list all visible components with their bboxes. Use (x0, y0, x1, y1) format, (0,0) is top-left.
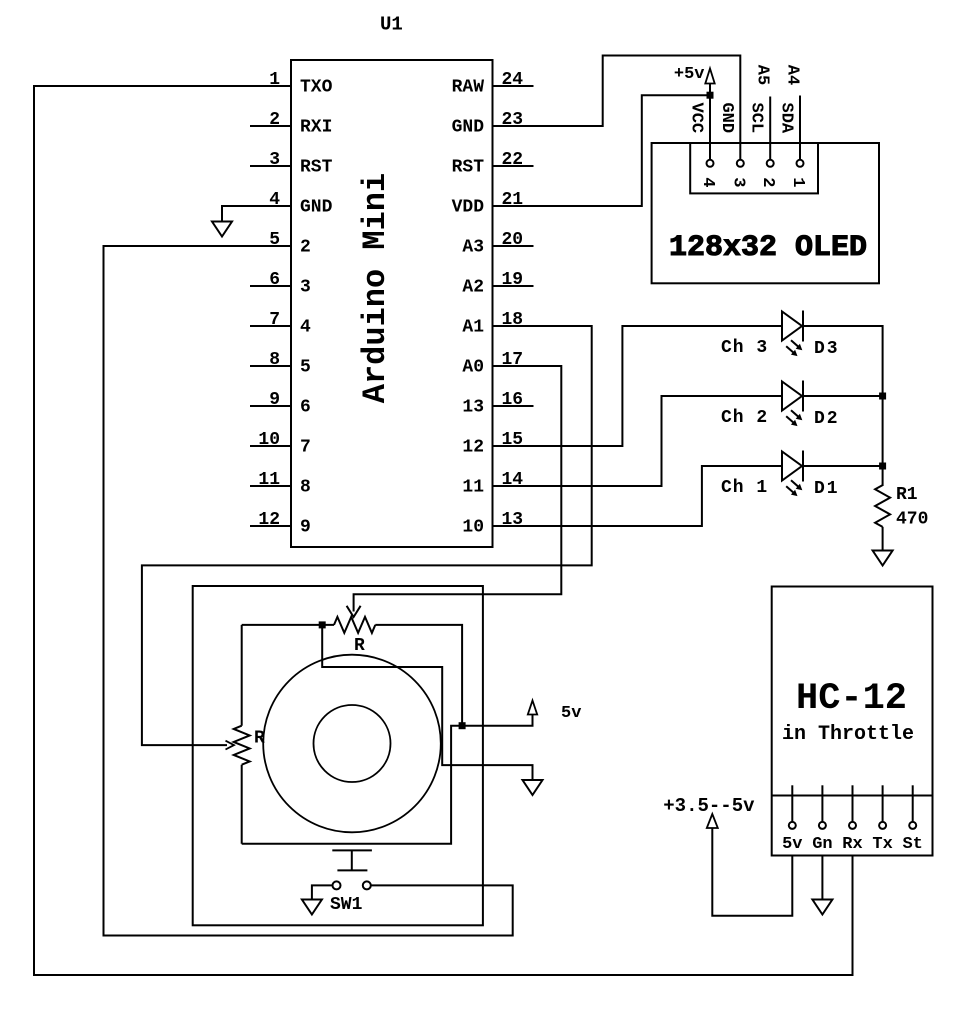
wire pin1 TXO to HC-12 Rx (34, 86, 853, 975)
pin 14 (11) right stub, number and label (462, 470, 523, 498)
label D2 (814, 409, 840, 429)
LED D2 (782, 381, 803, 427)
label Ch 1 (721, 478, 768, 498)
svg-text:10: 10 (462, 518, 484, 538)
pin 12 (9) left stub, number and label (250, 510, 311, 538)
svg-text:8: 8 (269, 350, 280, 370)
LED D3 (782, 311, 803, 357)
OLED pin 2 circle (767, 160, 774, 167)
HC-12 pin St tick and circle (909, 785, 916, 829)
OLED pin header block (690, 143, 818, 193)
HC-12 pin label St (902, 835, 922, 854)
HC-12 pin label Gn (812, 835, 832, 854)
wiper arrowhead into left pot (226, 741, 235, 750)
label 128x32 OLED (669, 231, 867, 265)
label R (top pot) (354, 636, 365, 656)
svg-text:7: 7 (300, 438, 311, 458)
svg-text:3: 3 (728, 177, 747, 187)
+5v label (674, 65, 705, 84)
wire ground rail of pots (322, 625, 532, 780)
joystick inner knob circle (314, 705, 391, 782)
pin 9 (6) left stub, number and label (250, 390, 311, 418)
svg-text:11: 11 (258, 470, 280, 490)
svg-text:2: 2 (269, 110, 280, 130)
svg-text:VCC: VCC (687, 102, 706, 133)
svg-text:Ch 2: Ch 2 (721, 408, 768, 428)
junction node +5v/VDD (707, 92, 714, 99)
svg-text:SDA: SDA (777, 102, 796, 133)
svg-text:6: 6 (300, 398, 311, 418)
pin 11 (8) left stub, number and label (250, 470, 311, 498)
svg-text:2: 2 (300, 238, 311, 258)
svg-text:12: 12 (258, 510, 280, 530)
label D3 (814, 339, 840, 359)
joystick outer ring (263, 655, 441, 833)
label +3.5--5v (663, 795, 755, 817)
svg-text:GND: GND (452, 118, 485, 138)
junction node top pot / ground rail (319, 621, 326, 628)
pin 3 (RST) left stub, number and label (250, 150, 333, 178)
svg-text:6: 6 (269, 270, 280, 290)
joystick module outer box (193, 586, 483, 925)
label 470 (896, 510, 928, 530)
svg-text:A1: A1 (462, 318, 484, 338)
label in Throttle (782, 723, 914, 746)
svg-text:A4: A4 (783, 65, 802, 85)
svg-text:Ch 3: Ch 3 (721, 338, 768, 358)
OLED pin number 1 (rotated) (788, 177, 807, 187)
svg-text:+3.5--5v: +3.5--5v (663, 795, 755, 817)
+5v power arrow symbol (705, 69, 714, 84)
5v power arrow at joystick (528, 701, 537, 715)
U1 reference designator label (380, 14, 403, 36)
svg-text:RST: RST (452, 158, 485, 178)
svg-text:19: 19 (502, 270, 524, 290)
OLED pin number 2 (rotated) (758, 177, 777, 187)
ground symbol at SW1 (302, 900, 322, 915)
label HC-12 (796, 678, 907, 720)
svg-text:VDD: VDD (452, 198, 485, 218)
pin 10 (7) left stub, number and label (250, 430, 311, 458)
junction node D1/bus (879, 463, 886, 470)
svg-text:20: 20 (502, 230, 524, 250)
OLED pin 1 circle (797, 160, 804, 167)
wire pin15 (12) to LED D3 (493, 326, 783, 446)
wire +5v to OLED VCC pin4 (709, 84, 711, 160)
label Ch 3 (721, 338, 768, 358)
svg-text:D3: D3 (814, 339, 840, 359)
pin 22 (RST) right stub, number and label (452, 150, 534, 178)
ground symbol at joystick (523, 780, 543, 795)
wire pin14 (11) to LED D2 (493, 396, 783, 486)
label 5v (561, 704, 581, 723)
pin 1 (TXO) left stub, number and label (269, 70, 332, 98)
wire HC-12 Gn to ground (821, 856, 823, 900)
OLED pin number 4 (rotated) (698, 177, 717, 187)
label SW1 (330, 895, 363, 915)
pin 21 (VDD) right stub, number and label (452, 190, 524, 218)
resistor R1 (875, 485, 890, 527)
wire 5v rail of pots (242, 715, 533, 844)
svg-text:Tx: Tx (872, 835, 892, 854)
OLED pin 3 circle (737, 160, 744, 167)
pin 8 (5) left stub, number and label (250, 350, 311, 378)
OLED pin label GND (rotated) (717, 102, 736, 133)
svg-text:RST: RST (300, 158, 333, 178)
wire pin5 (2) to SW1 (104, 246, 513, 936)
svg-text:5v: 5v (782, 835, 802, 854)
wire pin23 GND to OLED pin3 (493, 56, 741, 160)
potentiometer R (horizontal, X axis) (242, 617, 462, 726)
svg-text:10: 10 (258, 430, 280, 450)
svg-text:A3: A3 (462, 238, 484, 258)
net label A5 (rotated) (753, 65, 772, 85)
svg-text:Ch 1: Ch 1 (721, 478, 768, 498)
wire pin18 A1 to joystick pot wiper (142, 326, 592, 745)
wire pin13 (10) to LED D1 (493, 466, 783, 526)
wire +3.5--5v supply to HC-12 5v pin (712, 828, 792, 916)
wire D1 cathode to bus (803, 465, 883, 467)
OLED pin label SDA (rotated) (777, 102, 796, 133)
wire SW1 left contact to ground (312, 885, 333, 899)
pin 5 (2) left stub, number and label (269, 230, 311, 258)
wire A5 to OLED SCL pin2 (769, 97, 771, 160)
pin 17 (A0) right stub, number and label (462, 350, 523, 378)
label R (left pot) (254, 729, 265, 749)
svg-text:128x32 OLED: 128x32 OLED (669, 231, 867, 265)
pin 16 (13) right stub, number and label (462, 390, 533, 418)
svg-text:22: 22 (502, 150, 524, 170)
+3.5--5v power arrow (707, 814, 718, 828)
label R1 (896, 485, 918, 505)
HC-12 pin Gn tick and circle (819, 785, 826, 829)
svg-text:A2: A2 (462, 278, 484, 298)
svg-text:GND: GND (300, 198, 333, 218)
svg-text:A0: A0 (462, 358, 484, 378)
svg-text:8: 8 (300, 478, 311, 498)
svg-text:5: 5 (300, 358, 311, 378)
pin 24 (RAW) right stub, number and label (452, 70, 534, 98)
pin 6 (3) left stub, number and label (250, 270, 311, 298)
svg-text:R: R (354, 636, 365, 656)
wire D2 cathode to bus (803, 395, 883, 397)
svg-text:RXI: RXI (300, 118, 332, 138)
HC-12 pin 5v tick and circle (789, 785, 796, 829)
HC-12 pin label Rx (842, 835, 862, 854)
svg-text:SW1: SW1 (330, 895, 363, 915)
pin 4 (GND) left stub, number and label (269, 190, 332, 218)
svg-text:Gn: Gn (812, 835, 832, 854)
svg-text:4: 4 (300, 318, 311, 338)
wire pin4 GND stub (222, 206, 291, 222)
svg-text:U1: U1 (380, 14, 403, 36)
svg-text:A5: A5 (753, 65, 772, 85)
svg-text:GND: GND (717, 102, 736, 133)
OLED pin 4 circle (707, 160, 714, 167)
svg-text:12: 12 (462, 438, 484, 458)
svg-text:24: 24 (502, 70, 524, 90)
wire pin21 VDD to +5v node (493, 95, 711, 206)
svg-text:RAW: RAW (452, 78, 485, 98)
svg-text:D2: D2 (814, 409, 840, 429)
wire pin17 A0 to joystick pot wiper (354, 366, 562, 612)
wire D3 cathode to R1 (803, 326, 883, 486)
label Ch 2 (721, 408, 768, 428)
svg-text:St: St (902, 835, 922, 854)
potentiometer R (vertical, Y axis) (234, 625, 250, 844)
OLED pin number 3 (rotated) (728, 177, 747, 187)
pin 2 (RXI) left stub, number and label (250, 110, 332, 138)
svg-text:9: 9 (300, 518, 311, 538)
svg-text:7: 7 (269, 310, 280, 330)
HC-12 pin Rx tick and circle (849, 785, 856, 829)
svg-text:470: 470 (896, 510, 928, 530)
svg-text:Arduino Mini: Arduino Mini (357, 173, 394, 403)
ground symbol at pin 4 (212, 222, 232, 237)
Arduino Mini part name (rotated) (357, 173, 394, 403)
svg-text:1: 1 (788, 177, 807, 187)
ground symbol below R1 (873, 551, 893, 566)
svg-text:3: 3 (300, 278, 311, 298)
svg-text:D1: D1 (814, 479, 840, 499)
OLED pin label SCL (rotated) (747, 102, 766, 133)
svg-text:16: 16 (502, 390, 524, 410)
pin 13 (10) right stub, number and label (462, 510, 523, 538)
svg-text:3: 3 (269, 150, 280, 170)
pin 18 (A1) right stub, number and label (462, 310, 523, 338)
junction node D2/bus (879, 393, 886, 400)
svg-text:R1: R1 (896, 485, 918, 505)
128x32 OLED module body (652, 143, 879, 283)
pin 7 (4) left stub, number and label (250, 310, 311, 338)
net label A4 (rotated) (783, 65, 802, 85)
svg-text:Rx: Rx (842, 835, 862, 854)
HC-12 pin label Tx (872, 835, 892, 854)
wire R1 to ground (882, 527, 884, 551)
pin 23 (GND) right stub, number and label (452, 110, 524, 138)
svg-text:HC-12: HC-12 (796, 678, 907, 720)
svg-text:2: 2 (758, 177, 777, 187)
pin 20 (A3) right stub, number and label (462, 230, 533, 258)
switch SW1 pushbutton actuator (332, 850, 372, 870)
svg-text:R: R (254, 729, 265, 749)
svg-text:13: 13 (462, 398, 484, 418)
junction node 5v rail (459, 722, 466, 729)
svg-text:TXO: TXO (300, 78, 333, 98)
label D1 (814, 479, 840, 499)
svg-text:5v: 5v (561, 704, 581, 723)
HC-12 pin label 5v (782, 835, 802, 854)
IC U1 Arduino Mini body (291, 60, 493, 547)
svg-text:4: 4 (698, 177, 717, 187)
ground symbol at HC-12 (812, 900, 832, 915)
pin 19 (A2) right stub, number and label (462, 270, 533, 298)
svg-text:+5v: +5v (674, 65, 705, 84)
LED D1 (782, 451, 803, 497)
wiper arrowhead into top pot (347, 606, 361, 617)
wire A4 to OLED SDA pin1 (799, 96, 801, 160)
svg-text:9: 9 (269, 390, 280, 410)
switch SW1 contacts (333, 881, 371, 889)
OLED pin label VCC (rotated) (687, 102, 706, 133)
svg-text:in Throttle: in Throttle (782, 723, 914, 746)
HC-12 module body (772, 587, 933, 856)
svg-text:11: 11 (462, 478, 484, 498)
HC-12 pin row divider (772, 795, 933, 797)
svg-text:SCL: SCL (747, 102, 766, 133)
pin 15 (12) right stub, number and label (462, 430, 523, 458)
HC-12 pin Tx tick and circle (879, 785, 886, 829)
